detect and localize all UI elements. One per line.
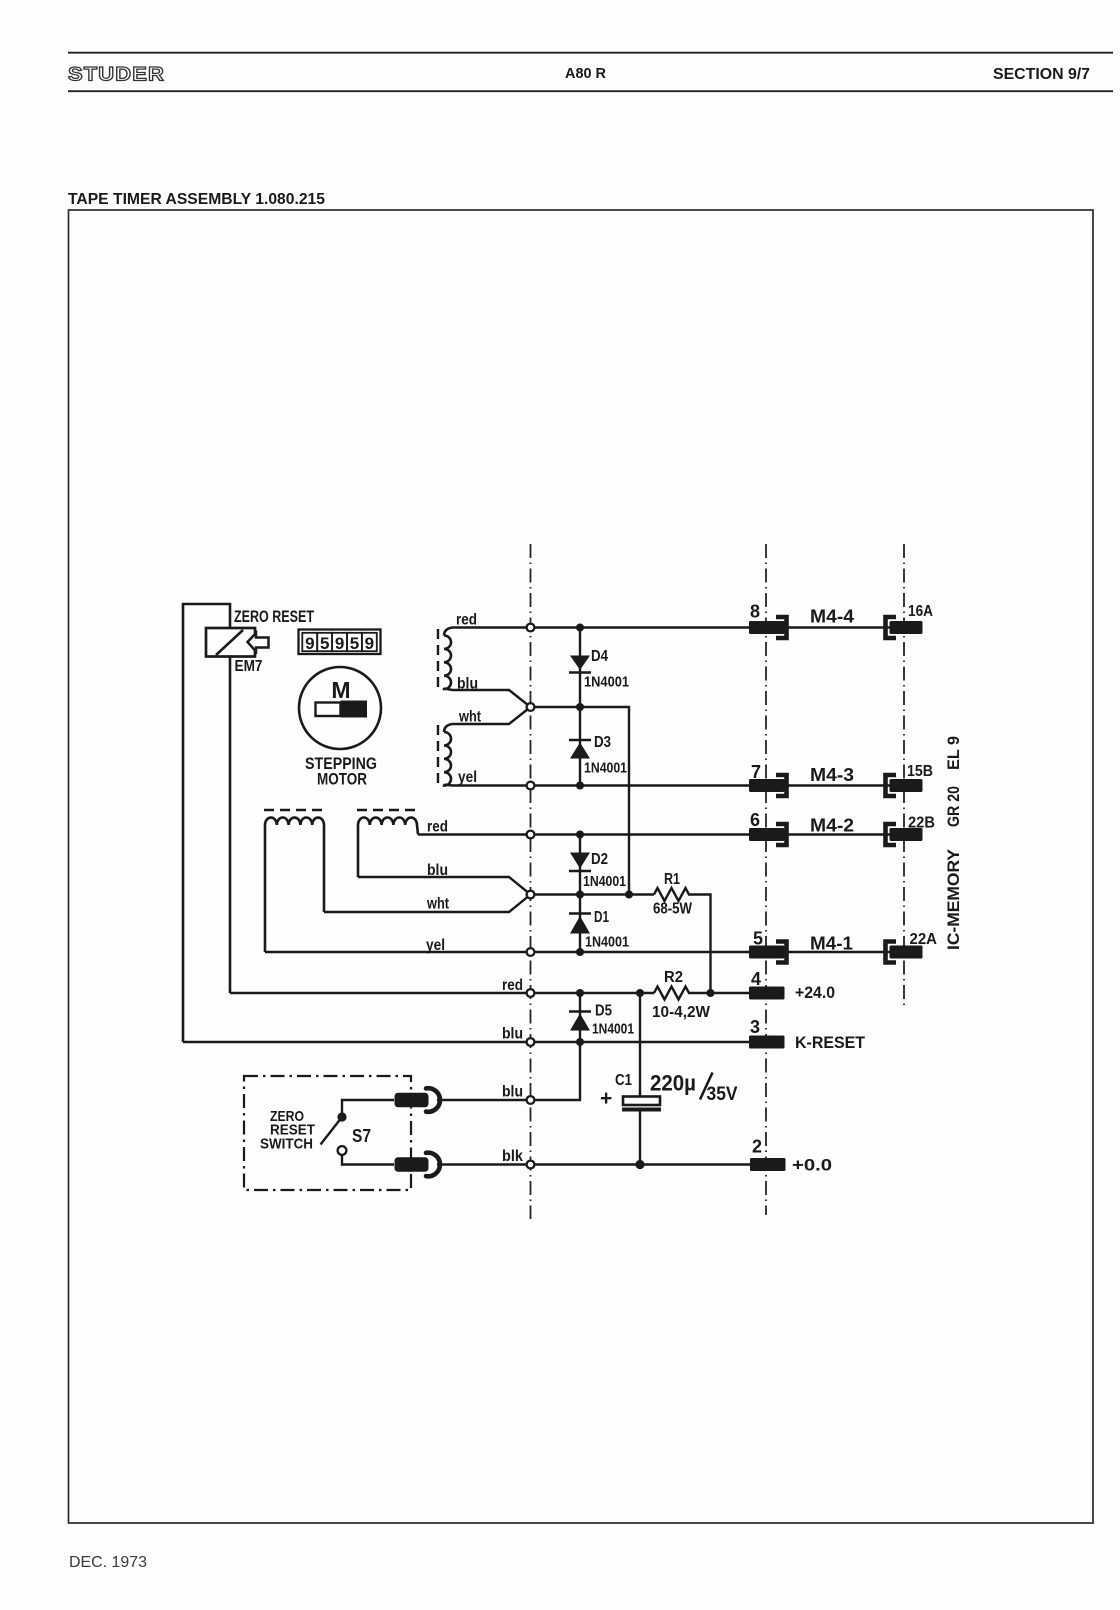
svg-text:2: 2 (752, 1137, 762, 1157)
svg-text:blk: blk (502, 1148, 523, 1165)
svg-text:22A: 22A (910, 931, 938, 948)
svg-text:blu: blu (502, 1084, 523, 1101)
svg-text:22B: 22B (908, 815, 935, 832)
svg-text:red: red (502, 977, 523, 994)
svg-text:blu: blu (427, 862, 448, 879)
svg-text:6: 6 (750, 810, 760, 830)
svg-text:yel: yel (426, 937, 445, 954)
svg-text:SECTION 9/7: SECTION 9/7 (993, 66, 1090, 83)
svg-text:8: 8 (750, 602, 760, 622)
svg-text:M4-2: M4-2 (810, 816, 854, 836)
svg-text:1N4001: 1N4001 (583, 873, 626, 890)
svg-text:EM7: EM7 (235, 658, 263, 675)
svg-text:+0.0: +0.0 (792, 1156, 832, 1175)
svg-text:blu: blu (457, 676, 478, 693)
svg-text:16A: 16A (908, 603, 933, 620)
svg-text:15B: 15B (907, 763, 933, 780)
svg-text:EL 9: EL 9 (944, 736, 963, 770)
svg-text:red: red (456, 612, 477, 629)
svg-text:+: + (600, 1087, 612, 1110)
svg-text:yel: yel (458, 769, 477, 786)
svg-text:5: 5 (350, 634, 359, 653)
svg-text:S7: S7 (352, 1126, 371, 1146)
svg-text:7: 7 (751, 762, 761, 782)
svg-text:R1: R1 (664, 871, 680, 888)
svg-text:wht: wht (426, 896, 449, 913)
svg-text:9: 9 (305, 634, 314, 653)
svg-text:IC-MEMORY: IC-MEMORY (944, 848, 963, 950)
svg-text:D4: D4 (591, 648, 608, 665)
svg-text:220µ: 220µ (650, 1071, 696, 1096)
svg-text:GR 20: GR 20 (944, 786, 963, 827)
svg-text:STUDER: STUDER (68, 64, 165, 86)
svg-text:3: 3 (750, 1017, 760, 1037)
svg-text:C1: C1 (615, 1072, 632, 1089)
svg-text:blu: blu (502, 1026, 523, 1043)
svg-text:D1: D1 (594, 909, 609, 926)
svg-text:red: red (427, 819, 448, 836)
svg-text:D3: D3 (594, 734, 611, 751)
svg-text:M: M (331, 677, 350, 703)
svg-text:1N4001: 1N4001 (584, 760, 627, 777)
svg-text:M4-4: M4-4 (810, 607, 854, 627)
svg-text:D5: D5 (595, 1003, 612, 1020)
svg-text:A80 R: A80 R (565, 65, 606, 82)
svg-text:68-5W: 68-5W (653, 901, 693, 918)
svg-text:35V: 35V (707, 1084, 738, 1105)
svg-text:1N4001: 1N4001 (584, 674, 629, 691)
svg-text:ZERO RESET: ZERO RESET (234, 608, 314, 626)
svg-text:5: 5 (753, 929, 763, 949)
svg-text:1N4001: 1N4001 (592, 1021, 634, 1038)
svg-text:M4-1: M4-1 (810, 934, 853, 954)
svg-text:9: 9 (335, 634, 344, 653)
svg-text:D2: D2 (591, 851, 608, 868)
svg-text:4: 4 (751, 969, 761, 989)
svg-text:9: 9 (365, 634, 374, 653)
svg-text:1N4001: 1N4001 (585, 934, 629, 951)
svg-text:R2: R2 (664, 969, 683, 986)
svg-text:5: 5 (320, 634, 329, 653)
svg-text:wht: wht (458, 709, 481, 726)
svg-text:10-4,2W: 10-4,2W (652, 1004, 711, 1021)
svg-text:SWITCH: SWITCH (260, 1136, 313, 1153)
svg-text:TAPE TIMER ASSEMBLY 1.080.215: TAPE TIMER ASSEMBLY 1.080.215 (68, 191, 325, 208)
svg-text:M4-3: M4-3 (810, 765, 854, 785)
svg-text:MOTOR: MOTOR (317, 771, 367, 789)
svg-text:+24.0: +24.0 (795, 983, 835, 1002)
svg-text:K-RESET: K-RESET (795, 1033, 866, 1052)
svg-text:DEC. 1973: DEC. 1973 (69, 1554, 147, 1571)
